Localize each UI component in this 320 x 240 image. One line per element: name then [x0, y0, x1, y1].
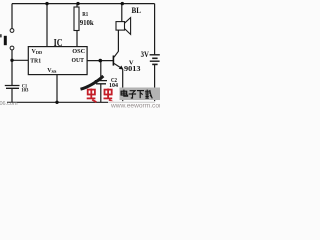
wire emitter to rail	[122, 69, 124, 102]
watermark red char chong2	[104, 89, 114, 103]
watermark grey plate	[120, 88, 161, 101]
svg-text:103: 103	[21, 88, 29, 94]
touch plate bar	[4, 36, 7, 45]
wire R1 top lead	[76, 4, 78, 7]
wire top rail	[12, 3, 155, 5]
wire bottom rail	[7, 101, 155, 103]
wire left column lower	[11, 89, 13, 103]
wire TR1	[12, 59, 28, 61]
node junction top-R1	[76, 2, 79, 5]
speaker BL box	[116, 22, 125, 31]
node junction top-speaker	[121, 2, 124, 5]
wire R1 to OSC	[76, 31, 78, 47]
touch contact upper circle	[10, 29, 14, 33]
touch contact lower circle	[10, 46, 14, 50]
op-amp U1 : IC box	[28, 47, 87, 75]
svg-text:VDD: VDD	[32, 49, 43, 55]
wire speaker to collector	[117, 30, 119, 51]
node junction left-TR1	[10, 59, 13, 62]
wire C2 lead lower	[100, 84, 102, 102]
svg-text:VSS: VSS	[47, 68, 57, 74]
speaker BL cone	[125, 18, 131, 35]
svg-text:OUT: OUT	[72, 57, 85, 64]
wire VSS	[56, 75, 58, 103]
wire OUT to base	[87, 60, 113, 62]
node junction OUT-C2	[99, 59, 103, 63]
wire right rail upper	[154, 4, 156, 55]
svg-text:3V: 3V	[141, 50, 149, 59]
svg-text:TR1: TR1	[30, 57, 41, 64]
wire C2 lead upper	[100, 61, 102, 81]
watermark url plate	[108, 101, 160, 110]
transistor Q1 emitter	[114, 63, 123, 69]
transistor Q1 collector	[114, 51, 119, 57]
wire right rail lower	[154, 65, 156, 103]
svg-text:06.com: 06.com	[0, 101, 18, 107]
capacitor C1	[5, 86, 20, 89]
svg-text:9013: 9013	[124, 65, 141, 73]
capacitor C2	[95, 81, 107, 84]
svg-text:www.eeworm.com: www.eeworm.com	[110, 103, 160, 110]
svg-text:BL: BL	[132, 6, 142, 15]
wire left column upper	[11, 4, 13, 29]
watermark black char zi	[129, 91, 136, 98]
watermark swoosh	[81, 76, 104, 89]
watermark black char xia	[137, 91, 144, 99]
svg-text:OSC: OSC	[72, 48, 85, 55]
watermark black char zai	[145, 90, 152, 99]
watermark black char dian	[121, 90, 128, 97]
node junction VSS-rail	[55, 101, 58, 104]
transistor Q1 emitter arrowhead	[119, 66, 124, 70]
svg-text:104: 104	[109, 83, 118, 89]
wire speaker top lead	[121, 4, 123, 22]
watermark red char chong1	[87, 89, 97, 103]
transistor Q1 base bar	[113, 56, 115, 66]
svg-text:IC: IC	[54, 37, 63, 49]
node junction top-VDD	[45, 2, 48, 5]
wire VDD	[46, 4, 48, 47]
svg-text:910k: 910k	[80, 19, 94, 27]
svg-text:R1: R1	[82, 11, 88, 18]
label fragment at edge	[0, 34, 2, 37]
wire left column middle	[11, 50, 13, 85]
resistor R1	[74, 7, 79, 31]
battery GB 3V	[150, 55, 160, 65]
